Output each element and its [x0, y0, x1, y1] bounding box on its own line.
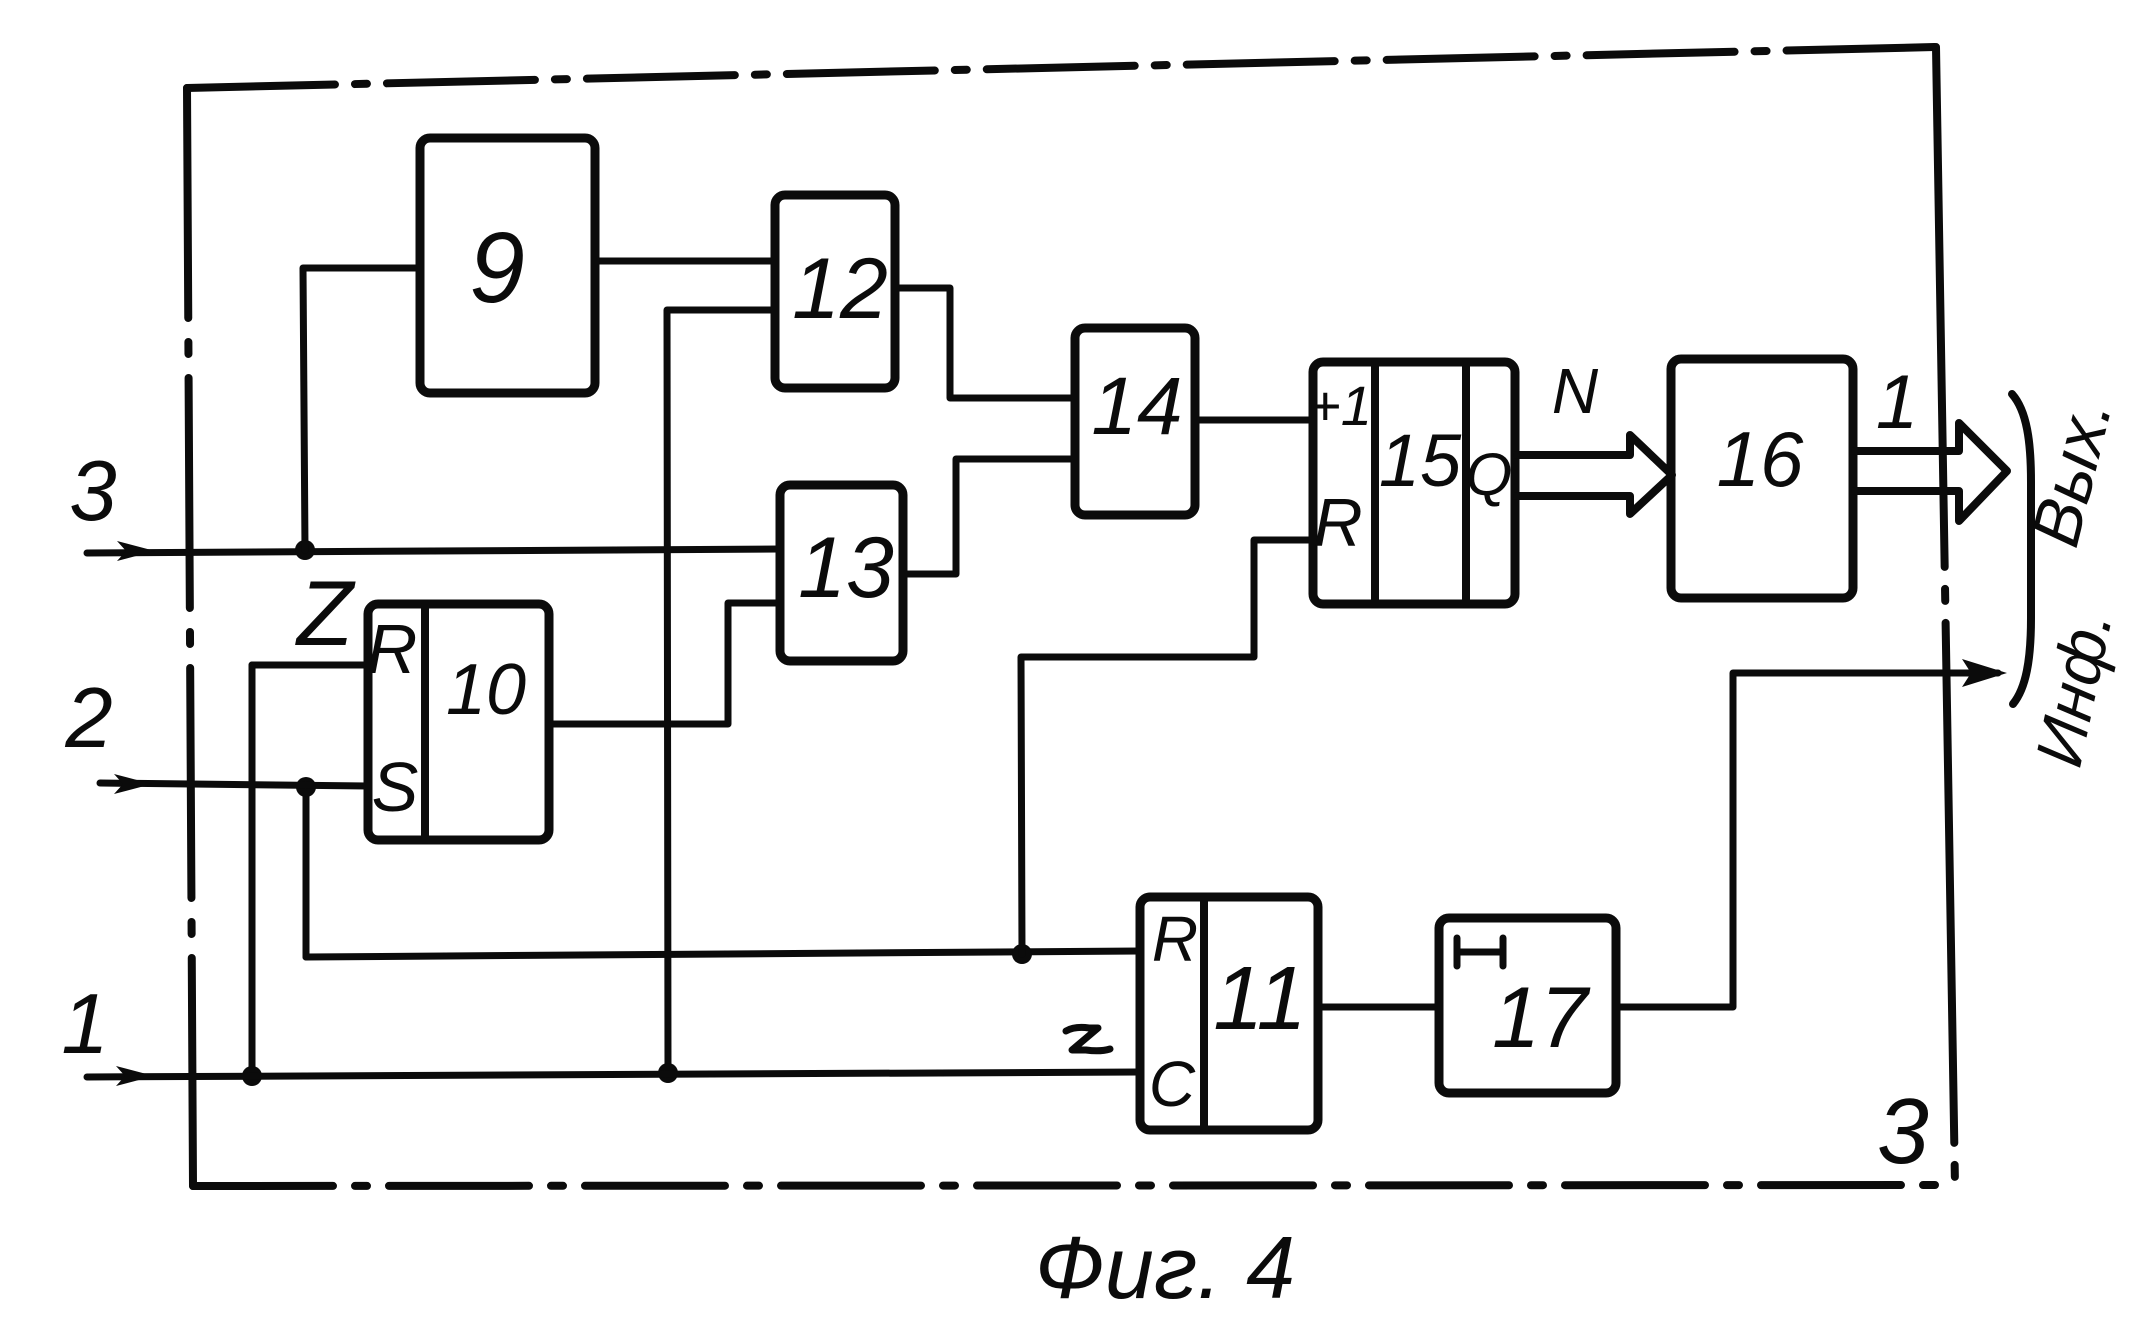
- svg-text:+1: +1: [1308, 374, 1372, 437]
- svg-text:3: 3: [69, 444, 116, 539]
- wire input 2 line to S pin: [100, 783, 368, 786]
- wire node junction on S-net: [1012, 944, 1032, 964]
- wire S-net long horizontal to block 11 R: [306, 951, 1140, 957]
- svg-text:Вых.: Вых.: [2017, 391, 2127, 553]
- block 11 divider: [1200, 897, 1208, 1130]
- svg-text:N: N: [1552, 355, 1599, 427]
- svg-text:R: R: [367, 610, 418, 688]
- svg-text:1: 1: [1876, 360, 1918, 445]
- block 15 left divider: [1371, 362, 1379, 604]
- enclosure dash-dot border right: [1936, 47, 1955, 1186]
- block arrow 16 output: [1855, 423, 2007, 521]
- svg-text:Инф.: Инф.: [2021, 604, 2126, 773]
- wire vertical from input 1 to R wire: [249, 665, 256, 1076]
- block 15 counter: [1313, 362, 1515, 604]
- arrowhead output info line: [1962, 659, 2007, 687]
- wire node junction on input 1: [242, 1066, 262, 1086]
- svg-text:S: S: [372, 748, 419, 826]
- enclosure dash-dot border top: [187, 47, 1936, 88]
- svg-text:11: 11: [1213, 949, 1306, 1049]
- wire block 12 to block 14: [895, 288, 1075, 398]
- svg-text:9: 9: [469, 212, 525, 324]
- wire S junction vertical: [303, 787, 310, 957]
- wire node junction on input 3: [295, 540, 315, 560]
- wire to block 10 R pin: [252, 662, 368, 669]
- brace output bracket: [2012, 394, 2031, 704]
- svg-text:3: 3: [1877, 1079, 1929, 1183]
- wire input 3 line: [87, 549, 780, 553]
- wire block 17 to output arrow: [1616, 673, 1998, 1007]
- wire vertical net to block 12 second input: [667, 310, 775, 1073]
- svg-text:16: 16: [1717, 415, 1804, 503]
- svg-text:Z: Z: [295, 563, 356, 665]
- wire block 13 to block 14: [903, 459, 1075, 574]
- svg-text:10: 10: [446, 650, 526, 730]
- arrowhead input 3: [117, 541, 155, 561]
- wire from node to block 9 input: [303, 268, 420, 550]
- svg-text:12: 12: [792, 241, 888, 337]
- block 16: [1671, 359, 1853, 598]
- wire block 10 to block 13: [549, 603, 780, 724]
- block 12: [775, 195, 895, 388]
- wire block 9 to block 12: [595, 258, 775, 265]
- svg-text:2: 2: [64, 671, 112, 766]
- block 15 right divider: [1462, 362, 1470, 604]
- wire block 11 to block 17: [1318, 1004, 1439, 1011]
- svg-text:15: 15: [1379, 419, 1462, 502]
- clock step symbol near C pin: [1066, 1027, 1110, 1050]
- arrowhead input 1: [116, 1066, 154, 1086]
- svg-text:R: R: [1152, 903, 1198, 975]
- wire input 1 line to block 11 C pin: [87, 1072, 1140, 1077]
- block 10 divider: [421, 604, 429, 840]
- arrowhead input 2: [114, 774, 152, 794]
- svg-text:R: R: [1313, 485, 1362, 561]
- delay symbol in block 17: [1457, 938, 1503, 966]
- svg-text:1: 1: [61, 977, 108, 1072]
- enclosure dash-dot border left: [187, 88, 193, 1186]
- block 10 trigger: [368, 604, 549, 840]
- svg-text:17: 17: [1492, 970, 1591, 1066]
- wire block 14 to block 15 +1 input: [1195, 417, 1313, 424]
- svg-text:13: 13: [798, 520, 894, 616]
- wire node junction on input 1 at x667: [658, 1063, 678, 1083]
- svg-text:Q: Q: [1466, 441, 1513, 508]
- block 9: [420, 138, 595, 393]
- block 17 delay element: [1439, 918, 1616, 1093]
- wire from junction to block 15 R input: [1021, 540, 1313, 954]
- wire node junction on input 2: [296, 777, 316, 797]
- svg-text:14: 14: [1091, 361, 1182, 452]
- svg-text:C: C: [1149, 1048, 1196, 1120]
- block 11 counter: [1140, 897, 1318, 1130]
- block arrow 15 Q to 16: [1517, 435, 1672, 514]
- svg-text:Фиг. 4: Фиг. 4: [1035, 1218, 1295, 1317]
- block 13: [780, 485, 903, 661]
- enclosure dash-dot border bottom: [193, 1185, 1955, 1186]
- block 14: [1075, 328, 1195, 515]
